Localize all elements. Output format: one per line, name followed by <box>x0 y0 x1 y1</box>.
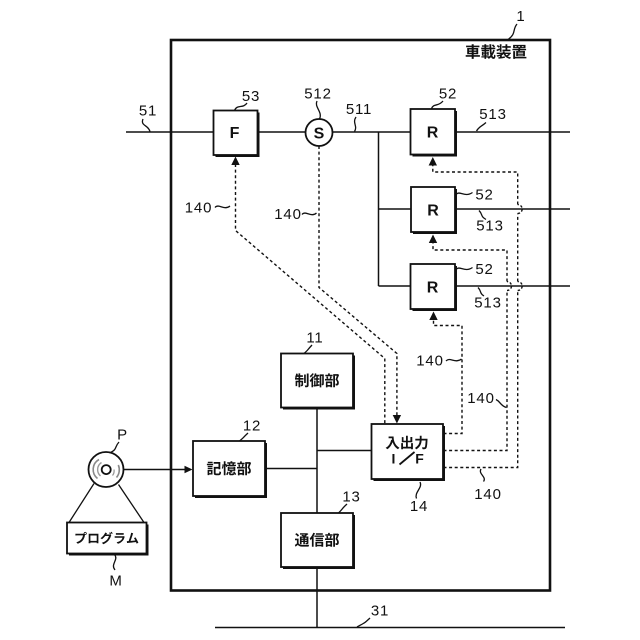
leader for 513 R1 <box>477 123 487 132</box>
svg-text:52: 52 <box>475 261 493 278</box>
box R1 (52) <box>411 109 458 157</box>
leader for 14 <box>416 482 421 499</box>
svg-text:140: 140 <box>467 390 494 407</box>
svg-text:R: R <box>427 125 439 142</box>
box 記憶部 (12) <box>193 441 267 498</box>
label 車載装置 <box>466 44 527 59</box>
arrowhead up into R3 <box>429 312 437 321</box>
arrowhead up into R2 <box>429 235 437 244</box>
leader for 53 <box>235 103 248 111</box>
svg-text:14: 14 <box>410 498 428 515</box>
svg-text:31: 31 <box>371 603 389 620</box>
leader for 11 <box>304 345 312 354</box>
leader for 140 R3 loop tilde <box>446 359 462 361</box>
leader for 13 <box>339 504 348 513</box>
svg-text:513: 513 <box>476 218 503 235</box>
arrowhead into 記憶部 <box>185 466 193 474</box>
svg-text:140: 140 <box>416 353 443 370</box>
box F (53) <box>214 111 260 158</box>
box 入出力 I/F (14) <box>372 424 446 481</box>
dashed path 140 from S down into I/F <box>319 146 397 416</box>
svg-text:M: M <box>109 573 122 590</box>
outer box 車載装置 <box>171 40 550 591</box>
leader for P <box>110 442 120 453</box>
wire disc to 記憶部 <box>123 469 185 471</box>
svg-text:R: R <box>427 280 439 297</box>
leader for 511 <box>355 117 357 132</box>
wire bus to R3 <box>379 285 413 287</box>
arrowhead up into R1 <box>429 157 437 166</box>
arrowhead up into F <box>231 157 239 166</box>
wire trapezoid left line disc to program box <box>69 484 94 523</box>
dashed path 140 from I/F up into F <box>236 164 385 424</box>
leader for M <box>113 555 115 571</box>
svg-text:I: I <box>392 451 396 467</box>
svg-text:12: 12 <box>243 418 261 435</box>
svg-text:513: 513 <box>474 295 501 312</box>
leader for 1 <box>508 24 518 40</box>
leader for 52 R3 tilde <box>456 268 473 270</box>
dashed path 140 loop to R2 <box>444 291 508 451</box>
box 通信部 (13) <box>281 513 355 569</box>
leader for 140 R2 loop <box>496 400 507 408</box>
box R2 (52) <box>411 187 457 234</box>
wire 513 output of R3 <box>454 285 570 287</box>
wire 31 network line <box>215 627 565 629</box>
dashed path 140 loop to R3 <box>434 320 463 434</box>
svg-text:52: 52 <box>475 187 493 204</box>
leader for 52 R1 <box>432 101 444 109</box>
svg-text:1: 1 <box>516 8 525 25</box>
leader for 512 <box>316 101 320 119</box>
leader for 51 <box>142 119 150 132</box>
svg-text:140: 140 <box>274 206 301 223</box>
svg-text:11: 11 <box>306 330 323 347</box>
wire trapezoid right line disc to program box <box>119 485 145 523</box>
svg-text:512: 512 <box>304 86 331 103</box>
circle S (512) <box>306 119 333 146</box>
dashed path 140 loop to R1 <box>444 291 518 468</box>
arrowhead down into 入出力 I/F <box>393 415 401 424</box>
leader for 52 R2 tilde <box>456 193 473 195</box>
svg-text:513: 513 <box>479 106 506 123</box>
svg-text:R: R <box>427 203 439 220</box>
leader for 140 R1 loop <box>480 469 484 482</box>
wire 51 main horizontal line <box>126 131 570 133</box>
leader for 140 upper-left tilde <box>215 206 230 208</box>
wire 通信部 down to network line <box>316 566 318 628</box>
wire bus to 入出力 I/F <box>317 450 372 452</box>
leader for 513 R2 <box>479 211 486 220</box>
disc icon P <box>89 452 124 487</box>
svg-text:53: 53 <box>242 88 260 105</box>
wire control bus vertical 11-13 <box>316 407 318 514</box>
leader for 513 R3 <box>478 288 484 297</box>
svg-text:140: 140 <box>474 486 501 503</box>
svg-text:P: P <box>117 427 128 444</box>
svg-text:F: F <box>230 125 240 142</box>
svg-text:S: S <box>314 126 325 143</box>
leader for 12 <box>240 433 249 441</box>
svg-text:140: 140 <box>185 200 212 217</box>
svg-text:511: 511 <box>346 101 372 118</box>
box 制御部 (11) <box>281 354 355 410</box>
wire bus to R2 <box>379 208 413 210</box>
wire 513 output of R2 <box>454 208 570 210</box>
svg-text:13: 13 <box>342 489 360 506</box>
leader for 31 <box>357 618 370 627</box>
wire left R bus vertical <box>378 132 380 286</box>
svg-text:51: 51 <box>139 103 157 120</box>
svg-text:52: 52 <box>439 86 457 103</box>
leader for 140 mid tilde <box>302 213 317 215</box>
box プログラム (M) <box>67 523 149 556</box>
wire 記憶部 to bus <box>264 468 317 470</box>
svg-text:F: F <box>415 451 424 467</box>
box R3 (52) <box>411 264 458 311</box>
